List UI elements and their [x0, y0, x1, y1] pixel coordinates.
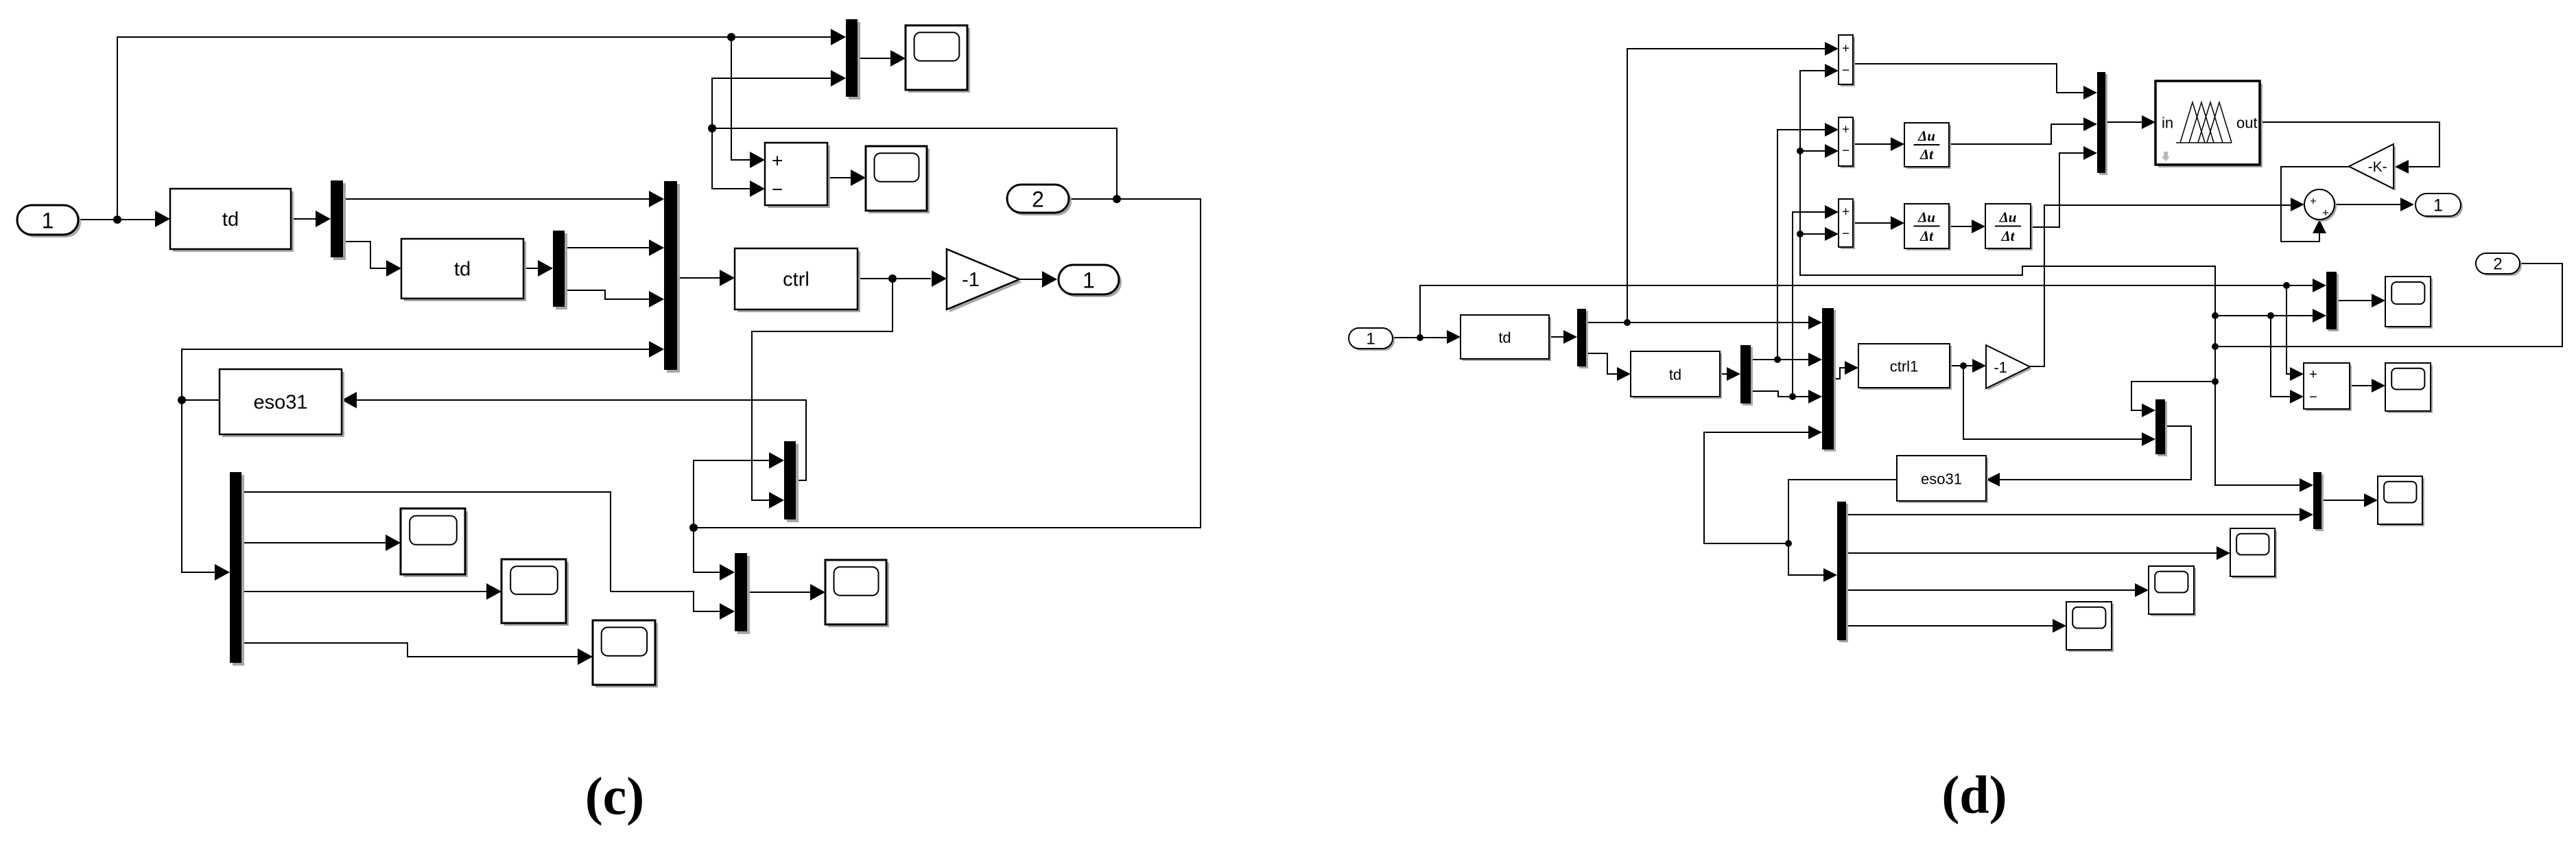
wire eso31 out to junction	[182, 399, 220, 401]
scope sum right (d)	[2385, 363, 2433, 413]
junction y416 sumD	[2283, 282, 2290, 289]
arrow into mux3 in4	[649, 341, 664, 358]
inport 1 (c)	[17, 205, 81, 237]
svg-text:eso31: eso31	[1921, 471, 1962, 488]
mux bar fuzzy input (d)	[2097, 72, 2107, 175]
svg-text:ctrl1: ctrl1	[1890, 358, 1919, 375]
arrow into mux3 in3	[649, 291, 664, 307]
sum block 1 (d)	[1839, 35, 1855, 86]
wire fuzzy out to gainK	[2260, 122, 2439, 167]
demux bar after td2 (c)	[553, 231, 567, 309]
wire demuxd out2 to scopeB	[1846, 552, 2218, 554]
wire sum3 out to dudt2	[1853, 222, 1892, 224]
wire eso31d out to junction	[1788, 480, 1897, 575]
svg-text:-1: -1	[962, 269, 980, 291]
wire muxd1 out1 to bigmux in1	[1586, 322, 1808, 323]
demux bar after td (d)	[1577, 309, 1588, 368]
arrow into sum1 plus	[1825, 42, 1839, 56]
arrow into muxd1	[1563, 330, 1577, 344]
mux bar upper right (d)	[2326, 272, 2339, 331]
arrow into upper mux in1	[2313, 279, 2326, 292]
wire gain to outport1c	[1019, 279, 1042, 280]
arrow into mux1	[316, 211, 331, 227]
fuzzy logic controller block (d)	[2155, 81, 2262, 167]
sum block right (d)	[2304, 363, 2352, 411]
gain -1 (c)	[947, 249, 1022, 312]
svg-text:−: −	[1842, 64, 1850, 78]
arrow into scope bot	[578, 648, 593, 665]
junction muxd2 out1	[1774, 356, 1781, 363]
arrow into mux3 in1	[649, 191, 664, 207]
svg-text:+: +	[2309, 367, 2317, 382]
arrow into eso31	[342, 392, 357, 408]
arrow into gainK	[2395, 160, 2409, 174]
arrow into muxT in1	[831, 29, 846, 45]
junction at eso31 out	[178, 396, 186, 404]
sum block 3 (d)	[1839, 199, 1855, 249]
wire y416 tee down to sumD plus	[2287, 285, 2291, 374]
arrow into dudt1	[1891, 137, 1904, 151]
wire demuxd out3 to scopeC	[1846, 589, 2136, 591]
wire minus tee to outport2d	[2215, 263, 2562, 347]
wire dudt1 to fuzzymux in2	[1949, 124, 2085, 144]
junction minus upper	[2212, 312, 2219, 319]
arrow into dudt2	[1891, 216, 1904, 230]
block ctrl1 (d)	[1858, 344, 1952, 390]
wire fuzzymux to fuzzy	[2105, 121, 2143, 123]
svg-text:Δt: Δt	[2000, 228, 2015, 244]
wire ctrl branch down to mux4 in2	[752, 279, 893, 500]
arrow into mux5 in1	[720, 564, 735, 581]
junction at outport2c	[1113, 195, 1121, 203]
mux bar right upper (c)	[784, 441, 799, 522]
svg-text:Δu: Δu	[1999, 209, 2017, 226]
wire net2 dot up to mux4 in1	[694, 460, 769, 528]
wire inport1d to td	[1393, 337, 1447, 338]
wire mux1 out1 to mux3 in1	[343, 198, 649, 200]
junction after ctrl	[888, 274, 897, 283]
arrow into sum minus	[750, 180, 765, 197]
wire td2 to mux2	[523, 268, 539, 269]
sum block (c)	[765, 143, 830, 208]
arrow into scopeA	[2364, 493, 2378, 507]
mux bar main (d)	[1822, 308, 1836, 452]
svg-text:in: in	[2162, 115, 2173, 132]
wire muxT to scope1	[858, 58, 890, 59]
svg-text:eso31: eso31	[253, 392, 307, 414]
wire sum2 out to dudt1	[1853, 143, 1892, 145]
wire minus tee down to sumD minus	[2271, 316, 2291, 397]
wire mux3 to ctrl	[677, 277, 720, 279]
arrow into mux3 in2	[649, 239, 664, 256]
junction minus sum3	[1797, 231, 1804, 237]
arrow into muxT in2	[831, 70, 846, 86]
svg-text:1: 1	[42, 209, 54, 233]
wire small mux to eso31d	[2000, 426, 2191, 480]
arrow into bigmux in3	[1808, 390, 1822, 403]
svg-text:out: out	[2236, 115, 2258, 132]
wire mux2 out1 to mux3 in2	[565, 247, 649, 248]
wire inport1c to td	[78, 219, 156, 220]
svg-text:+: +	[772, 150, 783, 172]
arrow into mux2	[538, 260, 553, 277]
svg-text:td: td	[454, 259, 471, 281]
wire minus tee sum3	[1800, 233, 1825, 235]
sum block 2 (d)	[1839, 117, 1855, 168]
block td second (d)	[1631, 351, 1722, 399]
svg-text:+: +	[2322, 207, 2329, 220]
wire demuxd out1 to midmux in2	[1846, 514, 2300, 515]
svg-text:td: td	[1669, 366, 1681, 384]
svg-text:ctrl: ctrl	[783, 269, 810, 291]
wire muxd1 out1 tee up to sum1 plus	[1627, 49, 1825, 323]
arrow into sum plus	[750, 152, 765, 168]
junction minus smallmux	[2212, 378, 2219, 385]
svg-text:+: +	[1842, 123, 1850, 137]
arrow into outport1d	[2400, 198, 2414, 211]
arrow into gain	[932, 270, 947, 287]
arrow into td	[155, 211, 170, 227]
mux bar main (c)	[664, 181, 680, 373]
arrow into scope mid	[486, 583, 501, 600]
wire muxd2 out1 to bigmux in2	[1751, 359, 1808, 360]
svg-text:+: +	[1842, 42, 1850, 56]
wire muxd1 out2 to td d2	[1586, 353, 1617, 374]
scope B (d)	[2230, 528, 2277, 578]
wire mux1 out2 to td2	[343, 242, 386, 268]
arrow into mux4 in2	[769, 492, 784, 508]
arrow into mux4 in1	[769, 452, 784, 469]
svg-text:−: −	[2309, 390, 2317, 405]
mux bar mid right (d)	[2313, 472, 2324, 531]
svg-text:(d): (d)	[1941, 765, 2007, 825]
junction at inport1d	[1417, 334, 1423, 341]
svg-text:+: +	[2310, 195, 2317, 208]
wire minus tee upper mux in2	[2215, 315, 2313, 316]
wire net2 vertical to sum minus	[712, 128, 750, 189]
svg-text:-1: -1	[1994, 359, 2007, 376]
outport 2 (c)	[1007, 185, 1072, 215]
wire demux out3 to scope	[241, 591, 486, 592]
wire upper mux to scope	[2337, 300, 2372, 301]
svg-text:2: 2	[2493, 255, 2502, 274]
arrow into td d1	[1447, 330, 1461, 344]
svg-text:Δt: Δt	[1919, 146, 1934, 163]
wire gain1d to sumcircle left	[2030, 205, 2292, 366]
svg-text:Δu: Δu	[1917, 128, 1935, 144]
junction eso31d out	[1785, 540, 1792, 547]
arrow into sumcircle bottom	[2313, 220, 2326, 233]
arrow into upper mux in2	[2313, 309, 2326, 323]
block td second (c)	[401, 239, 526, 301]
svg-text:1: 1	[2433, 196, 2443, 215]
wire outport2c net right	[694, 199, 1201, 528]
block ctrl (c)	[735, 248, 860, 312]
arrow into scopeC	[2135, 583, 2149, 597]
wire demuxd out4 to scopeD	[1846, 625, 2054, 626]
arrow into bigmux in2	[1808, 353, 1822, 366]
scope D (d)	[2066, 602, 2114, 652]
block eso31 (d)	[1897, 456, 1988, 503]
wire td d2 to muxd2	[1720, 373, 1727, 375]
arrow into sum2 minus	[1825, 144, 1839, 158]
junction minus sum2	[1797, 148, 1804, 154]
svg-text:(c): (c)	[585, 766, 645, 826]
wire inport1c branch up and across top	[117, 37, 831, 220]
outport 2 (d)	[2476, 253, 2522, 276]
arrow into demuxd	[1823, 568, 1837, 582]
scope top (c)	[906, 25, 970, 93]
wire dudt3 to fuzzymux in3	[2031, 153, 2085, 227]
scope demux out2 (c)	[401, 508, 468, 577]
arrow into bigmux in1	[1808, 316, 1822, 329]
junction muxd1 out1	[1624, 319, 1631, 326]
svg-text:td: td	[1498, 329, 1511, 347]
junction minus port2	[2212, 343, 2219, 350]
svg-text:−: −	[1842, 144, 1850, 159]
arrow into fuzzymux in3	[2083, 146, 2097, 160]
wire demux out4 to scope	[241, 643, 578, 657]
wire bigmux to ctrl1	[1834, 368, 1845, 379]
wire minus tee sum2	[1800, 150, 1825, 152]
arrow into scope top	[386, 535, 401, 551]
wire gainK out to sumcircle bottom	[2281, 167, 2349, 242]
mux bar right lower (c)	[735, 553, 750, 634]
arrow into sumD plus	[2290, 367, 2304, 381]
wire inport1d branch long top	[1420, 285, 2313, 338]
wire demux out2 to scope	[241, 542, 386, 543]
arrow into eso31d	[1986, 473, 2000, 487]
demux bar lower (d)	[1837, 502, 1848, 642]
arrow into smallmux in2	[2142, 432, 2155, 446]
svg-text:2: 2	[1032, 187, 1044, 212]
svg-text:-K-: -K-	[2368, 159, 2387, 175]
wire muxd2 out2 tee up to sum3 plus	[1793, 212, 1825, 397]
scope mux5 (c)	[825, 560, 889, 627]
wire muxd2 out2 to bigmux in3	[1751, 391, 1808, 397]
block td (d)	[1461, 315, 1551, 361]
arrow into scope1	[890, 50, 906, 67]
outport 1 (d)	[2415, 194, 2463, 218]
mux bar top (c)	[846, 19, 860, 99]
wire outport2c net up	[712, 128, 1117, 199]
demux bar after td2 (d)	[1740, 345, 1753, 406]
sum circle (d)	[2304, 189, 2337, 222]
arrow into sum3 plus	[1825, 205, 1839, 219]
junction top wire	[727, 33, 735, 41]
svg-text:+: +	[1842, 205, 1850, 220]
wire sum1 out to fuzzymux in1	[1853, 64, 2085, 93]
wire minus tee to small mux in1	[2131, 382, 2215, 410]
arrow into scope sum d	[2372, 379, 2385, 393]
svg-text:1: 1	[1366, 330, 1375, 349]
wire junction down to demux in	[182, 400, 215, 572]
wire minus chain	[1800, 71, 2300, 485]
wire mux5 to scope	[747, 592, 810, 593]
arrow into fuzzymux in1	[2083, 86, 2097, 99]
wire ctrl1 tee to small mux in2	[1963, 366, 2143, 439]
wire dudt2 to dudt3	[1949, 226, 1973, 227]
arrow into sum3 minus	[1825, 227, 1839, 241]
demux bar lower-left (c)	[230, 472, 244, 666]
demux bar after td (c)	[331, 180, 346, 260]
block td (c)	[170, 189, 294, 252]
wire ctrl to gain	[858, 278, 931, 279]
arrow into scope top d	[2372, 294, 2385, 307]
wire td d1 to mux	[1549, 336, 1563, 338]
wire junction to bigmux in4	[1704, 432, 1808, 543]
arrow into td d2	[1617, 367, 1631, 381]
wire net2 vertical to muxT in2	[712, 78, 831, 128]
arrow into midmux in1	[2300, 478, 2313, 492]
mux bar small (d)	[2155, 399, 2167, 456]
gain -K- (d)	[2349, 144, 2396, 191]
svg-text:−: −	[1842, 227, 1850, 242]
arrow into bigmux in4	[1808, 425, 1822, 439]
scope upper right (d)	[2385, 277, 2433, 329]
arrow into sumcircle left	[2291, 198, 2304, 211]
scope C (d)	[2149, 566, 2196, 616]
arrow into sum2 plus	[1825, 123, 1839, 137]
arrow into dudt3	[1972, 220, 1985, 233]
junction ctrl1 out	[1960, 362, 1967, 369]
arrow into scope2	[851, 169, 866, 186]
svg-text:Δt: Δt	[1919, 228, 1934, 244]
arrow into outport1c	[1042, 271, 1057, 288]
wire midmux to scopeA	[2321, 500, 2364, 501]
inport 1 (d)	[1349, 328, 1395, 351]
wire sum to scope2	[827, 177, 851, 178]
arrow into smallmux in1	[2142, 403, 2155, 417]
wire demux out1 to mux5 in2	[241, 492, 720, 611]
junction net2 y769	[689, 524, 698, 532]
wire td to mux1	[291, 218, 316, 220]
scope demux out4 (c)	[593, 620, 658, 688]
scope after sum (c)	[866, 146, 930, 213]
junction muxd2 out2	[1789, 393, 1796, 400]
gain -1 (d)	[1986, 345, 2032, 390]
wire mux4 out to eso31 in	[357, 400, 806, 480]
scope demux out3 (c)	[501, 559, 569, 626]
arrow into sumD minus	[2290, 390, 2304, 403]
wire mux2 out2 to mux3 in3	[565, 290, 649, 299]
scope A (d)	[2378, 476, 2424, 526]
arrow into scopeB	[2217, 546, 2230, 560]
arrow into midmux in2	[2300, 508, 2313, 522]
arrow into ctrl1	[1845, 361, 1858, 375]
wire top branch down to sum plus	[731, 37, 750, 160]
arrow into fuzzymux in2	[2083, 117, 2097, 131]
block du/dt 2 (d)	[1904, 204, 1951, 250]
block du/dt 1 (d)	[1904, 123, 1951, 169]
arrow into scope right	[810, 584, 825, 600]
arrow into muxd2	[1727, 367, 1740, 381]
block du/dt 3 (d)	[1985, 204, 2033, 250]
arrow into gain1d	[1972, 359, 1986, 373]
arrow into fuzzy	[2142, 115, 2155, 129]
wire sumD to scope	[2350, 385, 2372, 386]
arrow into demux	[215, 564, 230, 581]
junction y460 sumD	[2267, 312, 2274, 319]
arrow into td2	[386, 260, 401, 277]
wire ctrl1 to gain1d	[1950, 365, 1974, 366]
outport 1 (c)	[1059, 265, 1122, 297]
arrow into sum1 minus	[1825, 64, 1839, 78]
arrow into scopeD	[2053, 619, 2066, 633]
arrow into ctrl	[720, 270, 735, 286]
junction at inport1c	[113, 215, 121, 224]
wire eso31 branch to mux3 in4	[182, 349, 649, 400]
arrow into mux5 in2	[720, 603, 735, 620]
svg-text:Δu: Δu	[1917, 209, 1935, 226]
svg-text:−: −	[772, 179, 783, 200]
block eso31 (c)	[220, 369, 344, 437]
junction net2 y187	[708, 124, 716, 132]
svg-text:1: 1	[1083, 268, 1095, 293]
wire sumcircle to outport1d	[2335, 204, 2400, 205]
svg-text:td: td	[222, 209, 239, 231]
wire net2 dot down to mux5 in1	[694, 528, 720, 572]
wire muxd2 out1 tee up to sum2 plus	[1777, 130, 1825, 360]
